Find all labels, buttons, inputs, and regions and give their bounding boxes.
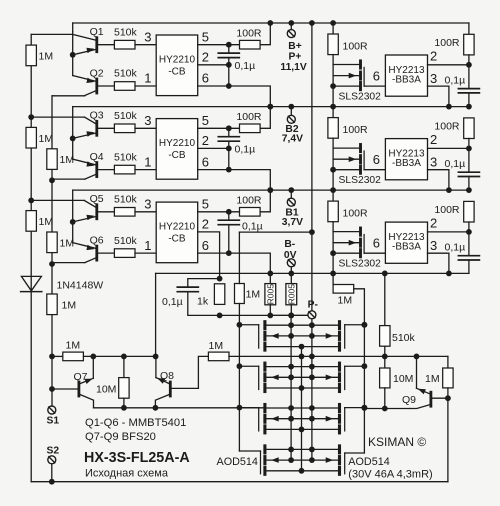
svg-text:1M: 1M <box>39 133 54 145</box>
wire B- bus left drop <box>155 273 157 356</box>
node pin6 riser group1 <box>267 104 273 110</box>
svg-text:Q9: Q9 <box>402 394 416 406</box>
node Q7 emitter <box>90 354 96 360</box>
svg-text:SLS2302: SLS2302 <box>339 92 382 103</box>
transistor Q8 <box>169 382 172 396</box>
wire Q4 collector to rail2 <box>52 178 85 180</box>
wire pin2 group3 detour <box>198 232 220 279</box>
svg-text:Q7-Q9 BFS20: Q7-Q9 BFS20 <box>85 431 156 443</box>
svg-text:5: 5 <box>202 197 209 212</box>
node pin6 cap group3 <box>226 250 232 256</box>
node gate rows left <box>237 322 243 328</box>
resistor 1M (gate column) <box>235 284 245 304</box>
wire pin2 g2 <box>428 147 469 149</box>
node SLS column top g1 <box>330 20 336 26</box>
node SLS source g2 <box>330 167 336 173</box>
node Q5/Q6 emitter junction <box>70 219 76 225</box>
wire FET row 1 drain lead <box>266 324 338 326</box>
svg-text:-BB3A: -BB3A <box>392 242 421 253</box>
node pin3 riser g3 <box>446 271 452 277</box>
wire rail1 to Q5 collector <box>31 199 84 201</box>
node rail2-Q6 <box>49 261 55 267</box>
wire 100R to bus group1 <box>260 23 270 45</box>
node row4 drains and bodies <box>288 447 294 453</box>
node 100R riser group1 <box>267 20 273 26</box>
resistor 100R (SLS g3) <box>332 190 334 201</box>
svg-text:0,1µ: 0,1µ <box>445 242 466 254</box>
svg-text:100R: 100R <box>343 41 369 53</box>
svg-text:2: 2 <box>430 132 437 147</box>
node Q3/Q4 emitter junction <box>70 136 76 142</box>
wire SLS column g2 <box>332 138 334 190</box>
svg-text:510k: 510k <box>392 332 416 344</box>
svg-text:3: 3 <box>144 197 151 212</box>
wire P- vertical to terminal <box>311 232 313 310</box>
svg-text:Исходная схема: Исходная схема <box>85 468 169 480</box>
resistor R005 b <box>290 273 292 283</box>
svg-text:10M: 10M <box>96 384 116 396</box>
transistor M4R AOD514 <box>338 446 341 453</box>
svg-text:2: 2 <box>430 49 437 64</box>
svg-text:100R: 100R <box>343 124 369 136</box>
svg-text:1M: 1M <box>246 289 261 301</box>
node pin5 cap group1 <box>226 42 232 48</box>
wire rail1 to Q3 collector <box>31 116 84 118</box>
svg-text:11,1V: 11,1V <box>280 62 306 73</box>
node source-bus right <box>309 354 315 360</box>
wire pin2 group1 <box>198 64 229 66</box>
wire pin6 group2 <box>198 170 271 191</box>
wire FET row 4 body lead <box>266 459 338 461</box>
svg-text:100R: 100R <box>236 28 262 40</box>
transistor Q4 <box>95 163 98 177</box>
transistor M4L AOD514 <box>263 446 266 453</box>
wire FET row 2 body lead <box>266 376 338 378</box>
resistor 510k (right) <box>384 273 386 325</box>
wire pin6 group1 <box>198 86 271 107</box>
svg-text:510k: 510k <box>114 26 138 38</box>
svg-text:HY2210: HY2210 <box>159 55 196 66</box>
svg-text:0,1µ: 0,1µ <box>242 221 263 233</box>
svg-text:1M: 1M <box>39 51 54 63</box>
wire group3 left vertical <box>72 190 74 222</box>
svg-text:Q8: Q8 <box>160 370 174 382</box>
svg-text:-CB: -CB <box>168 150 186 161</box>
wire Q7-collector long row <box>94 407 264 409</box>
node R005b bottom <box>288 313 294 319</box>
svg-text:3: 3 <box>430 155 437 170</box>
node cap-bus g2 <box>466 187 472 193</box>
wire B1 bus <box>73 189 469 191</box>
resistor 100R (SLS g2) <box>332 107 334 118</box>
resistor 100R group3 <box>240 208 261 217</box>
wire P- sense line <box>220 314 308 316</box>
svg-text:1M: 1M <box>60 154 75 166</box>
wire SLS column g1 <box>332 55 334 107</box>
svg-text:SLS2302: SLS2302 <box>339 259 382 270</box>
node rail1-Q3 <box>28 114 34 120</box>
svg-text:6: 6 <box>202 154 209 169</box>
svg-text:510k: 510k <box>114 110 138 122</box>
svg-text:1M: 1M <box>62 299 77 311</box>
node Q9 collector <box>445 395 451 401</box>
node SLS column top g2 <box>330 104 336 110</box>
wire rail to Q1 row <box>31 33 72 35</box>
svg-text:1: 1 <box>144 71 151 86</box>
svg-text:5: 5 <box>202 29 209 44</box>
svg-text:Q1: Q1 <box>90 26 104 38</box>
node 1k top <box>217 276 223 282</box>
resistor 1k <box>214 284 224 305</box>
wire FET row 2 drain lead <box>266 366 338 368</box>
svg-text:Q1-Q6 - MMBT5401: Q1-Q6 - MMBT5401 <box>85 417 186 429</box>
node pin5 cap group3 <box>226 209 232 215</box>
op-amp U6 HY2213-BB3A <box>385 222 427 263</box>
resistor 510k (Q5) <box>114 208 135 217</box>
svg-text:Q4: Q4 <box>90 151 104 163</box>
node row2 drains and bodies <box>288 364 294 370</box>
svg-text:510k: 510k <box>114 194 138 206</box>
node 100R riser group3 <box>267 187 273 193</box>
svg-text:AOD514: AOD514 <box>348 456 389 468</box>
node SLS source g1 <box>330 83 336 89</box>
svg-text:2: 2 <box>202 133 209 148</box>
svg-text:3: 3 <box>144 113 151 128</box>
resistor 100R (right g1) <box>468 23 470 34</box>
svg-text:-CB: -CB <box>168 234 186 245</box>
svg-text:1k: 1k <box>197 296 209 308</box>
node 1M-SLS bottom <box>330 271 336 277</box>
transistor Q6 <box>95 246 98 260</box>
node pin2-100R g2 <box>466 146 472 152</box>
svg-text:510k: 510k <box>114 235 138 247</box>
node 10M bottom <box>382 406 388 412</box>
diode 1N4148W <box>21 276 41 290</box>
svg-text:1M: 1M <box>66 340 81 352</box>
svg-text:2: 2 <box>202 217 209 232</box>
terminal B+ <box>290 23 292 29</box>
node 10M bottom <box>121 405 127 411</box>
resistor 510k (Q4) <box>114 165 135 174</box>
resistor 1M (rail2 top) <box>47 149 57 170</box>
svg-text:100R: 100R <box>434 120 460 132</box>
svg-text:-CB: -CB <box>168 67 186 78</box>
svg-text:0,1µ: 0,1µ <box>445 158 466 170</box>
node S2 rail <box>49 479 55 485</box>
wire P- sense bus <box>270 314 307 316</box>
terminal B2 <box>290 107 292 115</box>
wire FET row 2 source lead <box>266 387 338 389</box>
svg-text:100R: 100R <box>343 208 369 220</box>
svg-text:Q6: Q6 <box>90 235 104 247</box>
svg-text:Q2: Q2 <box>90 67 104 79</box>
svg-text:HY2210: HY2210 <box>159 222 196 233</box>
node pin6 cap group2 <box>226 167 232 173</box>
transistor Q3 <box>95 121 98 135</box>
node SLS source g3 <box>330 250 336 256</box>
node source-bus left <box>299 354 305 360</box>
node rail2 Q7 base <box>49 386 55 392</box>
svg-text:0,1µ: 0,1µ <box>162 296 183 308</box>
transistor SLS2302 g1 <box>359 61 362 68</box>
svg-text:6: 6 <box>373 69 380 84</box>
resistor 100R group2 <box>240 124 261 133</box>
node B2 stem <box>288 104 294 110</box>
svg-text:1: 1 <box>144 238 151 253</box>
terminal B1 <box>290 190 292 198</box>
svg-text:AOD514: AOD514 <box>217 456 258 468</box>
wire pin2 g3 <box>428 231 469 233</box>
wire FET row 1 source lead <box>266 346 338 348</box>
node row3 drains and bodies <box>288 405 294 411</box>
svg-text:6: 6 <box>373 152 380 167</box>
resistor 1M (Q8) <box>208 352 229 361</box>
resistor 1M (rail1 top) <box>26 45 36 66</box>
svg-text:0,1µ: 0,1µ <box>235 60 256 72</box>
node rail2-Q4 <box>49 177 55 183</box>
svg-text:R005: R005 <box>286 284 296 305</box>
transistor Q1 <box>95 38 98 52</box>
node rail2 bus <box>49 354 55 360</box>
wire pin5 group2 <box>198 127 240 129</box>
svg-text:100R: 100R <box>434 204 460 216</box>
wire pin5 group3 <box>198 211 240 213</box>
node pin2-100R g3 <box>466 229 472 235</box>
svg-text:-BB3A: -BB3A <box>392 75 421 86</box>
node drain column top <box>288 313 294 319</box>
wire pin2 group2 <box>198 147 229 149</box>
op-amp U4 HY2213-BB3A <box>385 55 427 96</box>
svg-text:Q7: Q7 <box>74 371 88 383</box>
node row1 drains and bodies <box>288 322 294 328</box>
svg-text:1N4148W: 1N4148W <box>57 280 104 292</box>
wire long vertical B+ to gate node <box>311 23 313 232</box>
resistor 100R group1 <box>240 40 261 49</box>
node pin6 cap group1 <box>226 83 232 89</box>
wire gate feed to left gate column <box>239 231 312 233</box>
svg-text:-BB3A: -BB3A <box>392 158 421 169</box>
transistor Q7 <box>78 382 81 396</box>
svg-text:KSIMAN ©: KSIMAN © <box>368 435 426 449</box>
wire SLS column g3 <box>332 222 334 274</box>
resistor 100R (right g3) <box>464 201 474 222</box>
svg-text:10M: 10M <box>393 373 413 385</box>
wire FET row 3 drain lead <box>266 407 338 409</box>
resistor 1M (rail2 low) <box>47 294 57 315</box>
resistor 510k (Q1) <box>114 40 135 49</box>
node SLS column top g3 <box>330 187 336 193</box>
node 510k bottom <box>382 354 388 360</box>
svg-text:1M: 1M <box>60 237 75 249</box>
node 10M top <box>121 354 127 360</box>
node pin6 riser group3 <box>267 271 273 277</box>
svg-text:5: 5 <box>202 113 209 128</box>
op-amp U1 HY2210-CB <box>156 35 198 96</box>
transistor Q9 <box>429 392 432 406</box>
svg-text:B+: B+ <box>288 41 301 52</box>
node rail1-Q5 <box>28 198 34 204</box>
svg-text:0,1µ: 0,1µ <box>445 74 466 86</box>
resistor 1M (Q9) <box>447 356 449 368</box>
capacitor 0,1u group1 <box>218 52 239 54</box>
resistor 10M (Q7/Q8) <box>123 356 125 377</box>
wire pin3 g2 <box>428 170 449 190</box>
svg-text:0,1µ: 0,1µ <box>235 144 256 156</box>
svg-text:P-: P- <box>308 300 319 311</box>
wire group1 left vertical <box>72 23 74 32</box>
svg-text:1M: 1M <box>425 373 440 385</box>
wire FET row 4 source lead <box>266 470 338 472</box>
svg-text:100R: 100R <box>236 195 262 207</box>
resistor 1M (rail2 mid) <box>47 232 57 253</box>
svg-text:P+: P+ <box>289 52 302 63</box>
transistor Q2 <box>95 79 98 93</box>
svg-text:3: 3 <box>430 71 437 86</box>
svg-text:SLS2302: SLS2302 <box>339 175 382 186</box>
transistor M3L AOD514 <box>263 405 266 412</box>
resistor R005 a <box>269 273 271 283</box>
resistor 1M (rail1 low) <box>26 211 36 232</box>
transistor SLS2302 g2 <box>359 145 362 152</box>
wire left drain column <box>290 315 292 460</box>
resistor 510k (Q3) <box>114 124 135 133</box>
transistor M2R AOD514 <box>338 363 341 370</box>
svg-text:S2: S2 <box>47 445 60 456</box>
node source rows <box>299 344 305 350</box>
svg-text:2: 2 <box>202 50 209 65</box>
wire source column <box>301 347 303 471</box>
wire pin2 g1 <box>428 64 469 66</box>
svg-text:HY2210: HY2210 <box>159 138 196 149</box>
node B- stem <box>288 271 294 277</box>
wire Q9 collector down <box>447 398 449 482</box>
wire Q6 collector to rail2 <box>52 262 85 264</box>
transistor M3R AOD514 <box>338 405 341 412</box>
wire pin3 g1 <box>428 86 449 107</box>
node pin3 riser g1 <box>446 104 452 110</box>
wire 100R to bus group2 <box>260 107 270 129</box>
terminal S1 <box>48 406 56 414</box>
node Q8 emitter riser <box>153 354 159 360</box>
wire Q9 base row <box>364 408 384 410</box>
node Q9 emitter riser <box>414 354 420 360</box>
op-amp U5 HY2213-BB3A <box>385 139 427 180</box>
svg-text:2: 2 <box>430 216 437 231</box>
wire FET row 4 drain lead <box>266 448 338 450</box>
svg-text:1: 1 <box>144 154 151 169</box>
wire B+ top bus <box>73 22 469 24</box>
wire Q2 collector to rail2 <box>53 95 85 97</box>
capacitor 0,1u (cluster) <box>177 286 198 288</box>
svg-text:510k: 510k <box>114 68 138 80</box>
wire B2 bus <box>73 106 469 108</box>
resistor 1M (rail1 mid) <box>26 127 36 148</box>
capacitor 0,1u group2 <box>218 136 239 138</box>
op-amp U3 HY2210-CB <box>156 202 198 263</box>
node pin3 riser g2 <box>446 187 452 193</box>
svg-text:100R: 100R <box>236 111 262 123</box>
svg-text:3: 3 <box>430 238 437 253</box>
resistor 510k (Q2) <box>114 82 135 91</box>
node gate rows right <box>362 322 368 328</box>
wire pin6 group3 <box>198 253 271 273</box>
wire Q8 base riser <box>198 356 208 388</box>
wire B- bus <box>156 272 469 274</box>
wire left gate column <box>238 232 240 283</box>
wire group2 left vertical <box>72 107 74 139</box>
svg-text:1M: 1M <box>39 216 54 228</box>
node Q1/Q2 emitter junction <box>70 52 76 58</box>
svg-text:1M: 1M <box>209 340 224 352</box>
node pin2 group1 <box>226 62 232 68</box>
transistor Q5 <box>95 205 98 219</box>
transistor SLS2302 g3 <box>359 228 362 235</box>
node P- vertical top <box>309 20 315 26</box>
resistor 10M (right) <box>384 356 386 368</box>
op-amp U2 HY2210-CB <box>156 119 198 180</box>
transistor M1L AOD514 <box>263 322 266 329</box>
resistor 1M (P- gate) <box>333 285 354 294</box>
svg-text:HX-3S-FL25A-A: HX-3S-FL25A-A <box>84 450 190 466</box>
svg-text:510k: 510k <box>114 151 138 163</box>
node B+ stem <box>288 20 294 26</box>
node 1k bottom <box>217 313 223 319</box>
svg-text:6: 6 <box>373 236 380 251</box>
node 510k top <box>382 271 388 277</box>
svg-text:B-: B- <box>284 239 295 250</box>
svg-text:6: 6 <box>202 71 209 86</box>
resistor 100R (right g2) <box>464 118 474 139</box>
transistor M1R AOD514 <box>338 322 341 329</box>
resistor 1M (Q7) <box>63 352 84 361</box>
svg-text:S1: S1 <box>47 416 60 427</box>
wire right gate column <box>363 325 365 453</box>
svg-text:3,7V: 3,7V <box>282 217 303 228</box>
node right-gate Q9 <box>362 405 368 411</box>
node B1 stem <box>288 187 294 193</box>
transistor M2L AOD514 <box>263 363 266 370</box>
wire Q7/Q8 bus <box>52 355 63 357</box>
node gate feed <box>309 229 315 235</box>
svg-text:(30V 46A 4,3mR): (30V 46A 4,3mR) <box>348 468 432 480</box>
node R005a bottom <box>267 313 273 319</box>
node pin6 riser group2 <box>267 187 273 193</box>
svg-text:Q3: Q3 <box>90 110 104 122</box>
svg-text:7,4V: 7,4V <box>282 134 303 145</box>
svg-text:Q5: Q5 <box>90 193 104 205</box>
wire pin5 group1 <box>198 44 240 46</box>
wire FET row 3 source lead <box>266 428 338 430</box>
wire FET row 3 body lead <box>266 418 338 420</box>
svg-text:1M: 1M <box>338 295 353 307</box>
wire gate bus <box>229 355 448 357</box>
node right gate top <box>362 322 368 328</box>
svg-text:R005: R005 <box>265 284 275 305</box>
wire bottom rail <box>31 481 448 483</box>
node pin2 group2 <box>226 146 232 152</box>
node 100R riser group2 <box>267 104 273 110</box>
node pin2-100R g1 <box>466 62 472 68</box>
svg-text:100R: 100R <box>434 37 460 49</box>
wire pin3 g3 <box>428 253 449 273</box>
capacitor 0,1u group3 <box>218 219 239 221</box>
svg-text:6: 6 <box>202 238 209 253</box>
wire FET row 1 body lead <box>266 335 338 337</box>
wire left 1M rail <box>30 34 32 481</box>
node Q8 collector <box>153 405 159 411</box>
wire 100R to bus group3 <box>260 190 270 212</box>
resistor 510k (Q6) <box>114 249 135 258</box>
